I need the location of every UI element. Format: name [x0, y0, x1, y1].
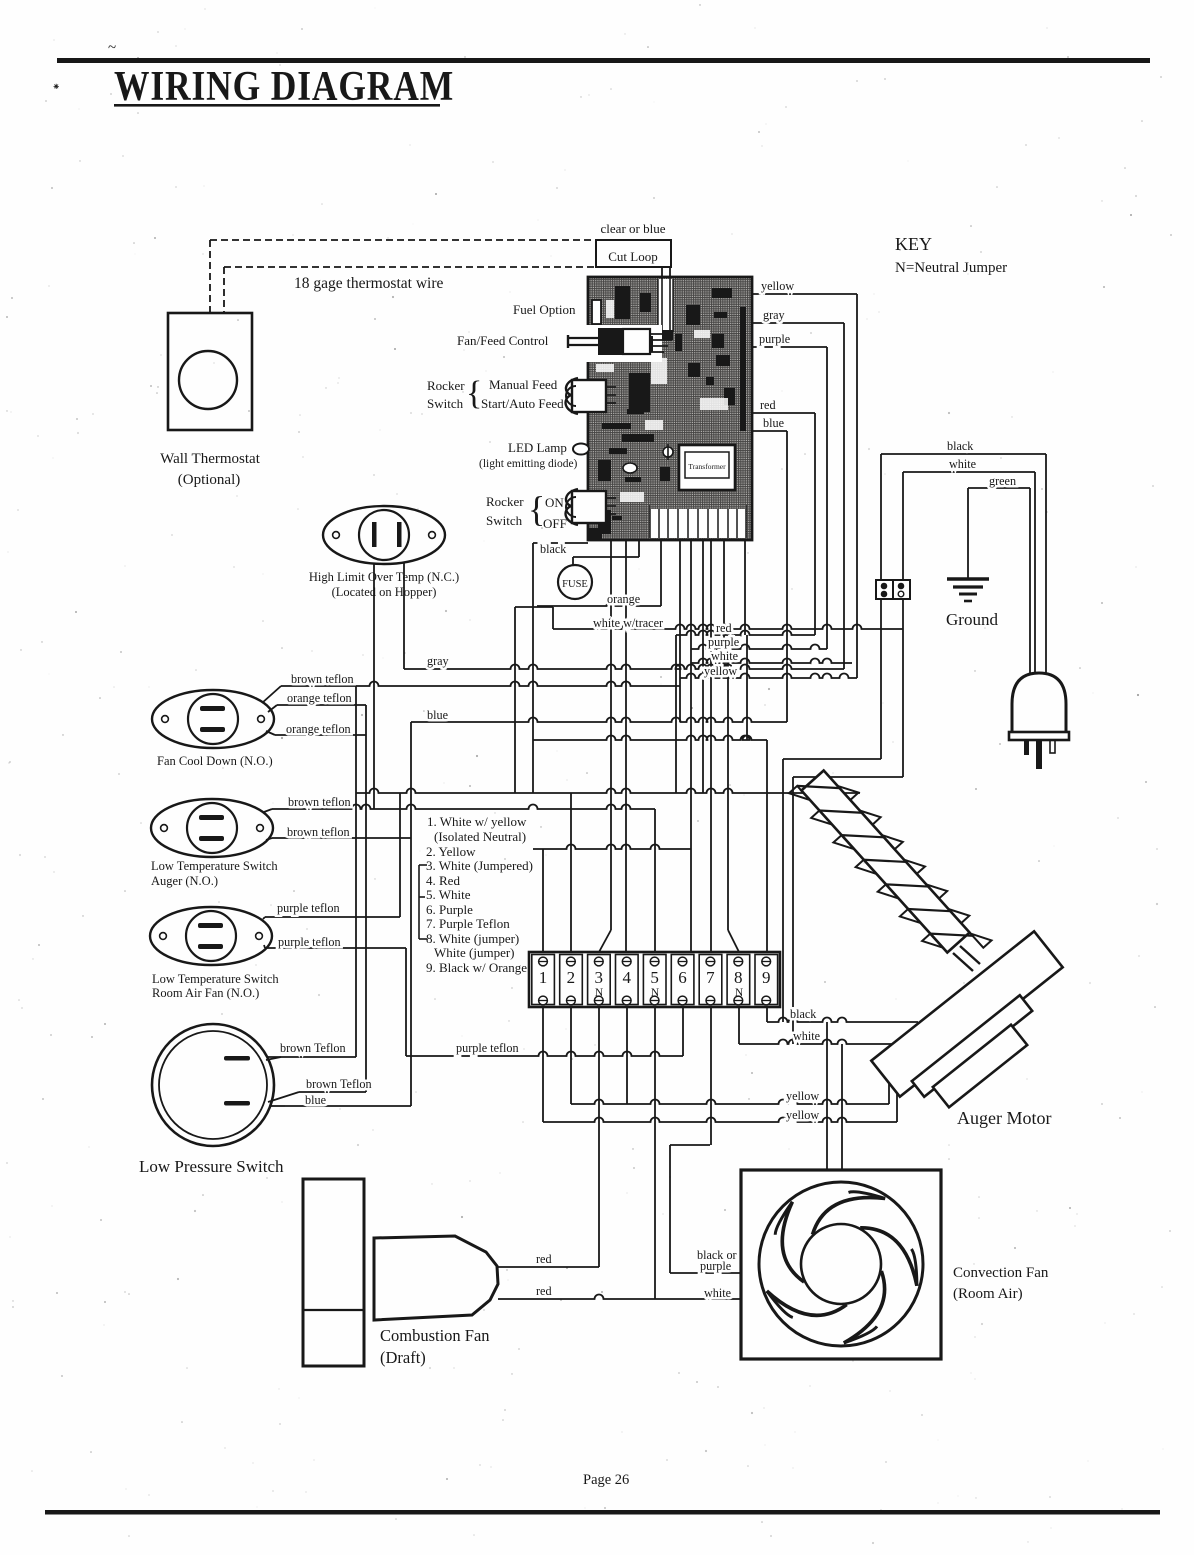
svg-text:5: 5 — [650, 968, 659, 987]
svg-text:Auger Motor: Auger Motor — [957, 1108, 1051, 1128]
svg-text:⁕: ⁕ — [52, 82, 60, 93]
svg-text:brown teflon: brown teflon — [291, 672, 354, 686]
svg-text:1. White w/ yellow: 1. White w/ yellow — [427, 814, 527, 829]
svg-text:red: red — [536, 1252, 552, 1266]
svg-text:orange teflon: orange teflon — [286, 722, 351, 736]
svg-text:N: N — [651, 987, 660, 999]
svg-text:Rocker: Rocker — [427, 378, 465, 393]
svg-text:3: 3 — [595, 968, 604, 987]
svg-text:Fuel Option: Fuel Option — [513, 302, 576, 317]
svg-text:Start/Auto Feed: Start/Auto Feed — [481, 396, 564, 411]
svg-text:blue: blue — [427, 708, 448, 722]
svg-text:brown teflon: brown teflon — [288, 795, 351, 809]
svg-text:gray: gray — [427, 654, 450, 668]
svg-text:red: red — [536, 1284, 552, 1298]
svg-text:yellow: yellow — [761, 279, 794, 293]
svg-text:(Room Air): (Room Air) — [953, 1286, 1023, 1302]
svg-text:N: N — [735, 987, 744, 999]
svg-text:black: black — [790, 1007, 817, 1021]
svg-text:3. White (Jumpered): 3. White (Jumpered) — [426, 858, 533, 873]
svg-text:7: 7 — [706, 968, 715, 987]
svg-text:yellow: yellow — [704, 664, 737, 678]
svg-text:OFF: OFF — [543, 516, 567, 531]
svg-text:white: white — [949, 457, 976, 471]
svg-text:Wall Thermostat: Wall Thermostat — [160, 451, 261, 467]
svg-text:orange teflon: orange teflon — [287, 691, 352, 705]
svg-text:Auger (N.O.): Auger (N.O.) — [151, 874, 218, 888]
svg-text:purple: purple — [700, 1259, 731, 1273]
svg-text:clear or blue: clear or blue — [601, 221, 666, 236]
svg-text:orange: orange — [607, 592, 640, 606]
svg-text:blue: blue — [305, 1093, 326, 1107]
svg-text:white w/tracer: white w/tracer — [593, 616, 663, 630]
svg-text:8: 8 — [734, 968, 743, 987]
svg-text:ON: ON — [545, 495, 564, 510]
svg-text:white: white — [793, 1029, 820, 1043]
svg-text:Cut Loop: Cut Loop — [608, 249, 657, 264]
svg-text:5. White: 5. White — [426, 887, 471, 902]
svg-text:white: white — [704, 1286, 731, 1300]
svg-text:Combustion Fan: Combustion Fan — [380, 1326, 490, 1345]
svg-text:~: ~ — [108, 40, 116, 56]
svg-text:(Optional): (Optional) — [178, 472, 240, 488]
svg-text:Low Pressure Switch: Low Pressure Switch — [139, 1157, 284, 1176]
svg-text:Room Air Fan (N.O.): Room Air Fan (N.O.) — [152, 986, 259, 1000]
svg-text:(Located on Hopper): (Located on Hopper) — [332, 585, 437, 599]
svg-text:N: N — [595, 987, 604, 999]
svg-text:Low Temperature Switch: Low Temperature Switch — [151, 859, 278, 873]
svg-text:Switch: Switch — [486, 513, 523, 528]
svg-text:Fan Cool Down (N.O.): Fan Cool Down (N.O.) — [157, 754, 273, 768]
svg-text:Transformer: Transformer — [688, 462, 726, 471]
svg-text:(light emitting diode): (light emitting diode) — [479, 458, 578, 470]
svg-text:black: black — [947, 439, 974, 453]
svg-text:White (jumper): White (jumper) — [434, 945, 515, 960]
svg-text:Convection Fan: Convection Fan — [953, 1265, 1049, 1281]
svg-text:4: 4 — [622, 968, 631, 987]
svg-text:brown teflon: brown teflon — [287, 825, 350, 839]
svg-text:(Draft): (Draft) — [380, 1348, 426, 1367]
svg-text:black: black — [540, 542, 567, 556]
svg-text:gray: gray — [763, 308, 786, 322]
svg-text:8. White (jumper): 8. White (jumper) — [426, 931, 519, 946]
svg-text:High Limit Over Temp (N.C.): High Limit Over Temp (N.C.) — [309, 570, 459, 584]
svg-text:2: 2 — [567, 968, 576, 987]
svg-text:1: 1 — [539, 968, 548, 987]
svg-text:FUSE: FUSE — [562, 579, 588, 590]
svg-text:purple: purple — [759, 332, 790, 346]
svg-text:9: 9 — [762, 968, 771, 987]
svg-text:purple: purple — [708, 635, 739, 649]
svg-text:Page 26: Page 26 — [583, 1472, 629, 1488]
svg-text:{: { — [466, 375, 482, 412]
svg-text:4. Red: 4. Red — [426, 873, 460, 888]
svg-text:LED Lamp: LED Lamp — [508, 440, 567, 455]
svg-text:Manual Feed: Manual Feed — [489, 377, 558, 392]
svg-text:blue: blue — [763, 416, 784, 430]
svg-text:brown Teflon: brown Teflon — [306, 1077, 372, 1091]
svg-text:6: 6 — [678, 968, 687, 987]
svg-text:6. Purple: 6. Purple — [426, 902, 473, 917]
svg-text:purple teflon: purple teflon — [456, 1041, 519, 1055]
svg-text:2. Yellow: 2. Yellow — [426, 844, 476, 859]
svg-text:brown Teflon: brown Teflon — [280, 1041, 346, 1055]
svg-text:Switch: Switch — [427, 396, 464, 411]
svg-text:red: red — [760, 398, 776, 412]
svg-text:KEY: KEY — [895, 234, 932, 254]
svg-text:yellow: yellow — [786, 1089, 819, 1103]
svg-text:red: red — [716, 621, 732, 635]
svg-text:Low Temperature Switch: Low Temperature Switch — [152, 972, 279, 986]
svg-text:(Isolated Neutral): (Isolated Neutral) — [434, 829, 526, 844]
svg-text:Fan/Feed Control: Fan/Feed Control — [457, 333, 549, 348]
svg-text:green: green — [989, 474, 1016, 488]
svg-text:purple teflon: purple teflon — [278, 935, 341, 949]
svg-text:Rocker: Rocker — [486, 494, 524, 509]
svg-text:purple teflon: purple teflon — [277, 901, 340, 915]
svg-text:9. Black w/ Orange: 9. Black w/ Orange — [426, 960, 527, 975]
svg-text:7. Purple Teflon: 7. Purple Teflon — [426, 916, 510, 931]
svg-text:N=Neutral Jumper: N=Neutral Jumper — [895, 260, 1007, 276]
svg-text:white: white — [711, 649, 738, 663]
svg-text:WIRING DIAGRAM: WIRING DIAGRAM — [114, 63, 454, 109]
svg-text:18 gage thermostat wire: 18 gage thermostat wire — [294, 275, 443, 292]
svg-text:Ground: Ground — [946, 610, 998, 629]
svg-text:yellow: yellow — [786, 1108, 819, 1122]
